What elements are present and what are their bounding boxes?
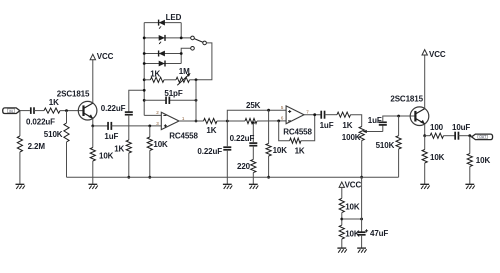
wire LED row2 (144, 37, 191, 39)
svg-text:220: 220 (237, 162, 251, 171)
switch contact A (191, 36, 195, 40)
wire (128, 153, 130, 177)
wire (20, 110, 30, 112)
wire right rail upper (180, 23, 182, 38)
wire feedback branch (129, 90, 144, 112)
svg-text:2.2M: 2.2M (28, 142, 46, 151)
potentiometer 25K (245, 118, 257, 123)
wire (444, 135, 456, 137)
capacitor 10uF (454, 132, 456, 140)
svg-text:1uF: 1uF (104, 132, 118, 141)
wire (459, 135, 472, 137)
wire (425, 135, 430, 137)
wire signal to pin3 (111, 125, 161, 127)
wire (217, 120, 245, 122)
switch contact B (191, 47, 195, 51)
node bus 1K (127, 176, 130, 179)
node op2 out (313, 113, 316, 116)
VCC (Q1) (90, 54, 95, 59)
node signal (148, 125, 151, 128)
wire (60, 110, 83, 112)
wire op2 out (304, 114, 321, 116)
svg-text:LED: LED (166, 13, 182, 22)
node rail dots (143, 37, 146, 40)
op-amp U1B RC4558 (286, 106, 304, 124)
wire (93, 125, 108, 127)
svg-text:10K: 10K (99, 152, 114, 161)
svg-text:1K: 1K (150, 69, 160, 78)
resistor 10K (divider top) (339, 198, 344, 212)
ground (2.2M) (16, 183, 25, 185)
wire wiper up (382, 125, 384, 131)
svg-text:10uF: 10uF (452, 123, 470, 132)
wire LED row4 (144, 63, 181, 65)
svg-text:VCC: VCC (97, 52, 114, 61)
svg-text:51pF: 51pF (164, 89, 182, 98)
wire (128, 115, 130, 140)
wire (351, 115, 362, 127)
wire (341, 187, 343, 198)
VCC (divider) (339, 182, 344, 187)
svg-text:10K: 10K (430, 153, 445, 162)
wire (257, 120, 286, 122)
resistor 510K (Q2 bias) (398, 116, 400, 136)
potentiometer 1M (176, 77, 190, 82)
potentiometer 100K (359, 127, 364, 141)
wire feedback rail (195, 80, 197, 121)
svg-text:RC4558: RC4558 (283, 127, 312, 136)
wire (341, 239, 343, 248)
diode LED2 (164, 35, 166, 41)
ground (emitter Q1) (88, 183, 97, 185)
resistor 510K (bias) (66, 111, 68, 123)
node wiper 10K (267, 109, 270, 112)
node bus 10K-2 (267, 176, 270, 179)
wire op2 feedback (279, 121, 290, 141)
input jack IN (3, 108, 20, 114)
svg-text:2SC1815: 2SC1815 (57, 89, 90, 98)
svg-text:0.22uF: 0.22uF (230, 134, 255, 143)
svg-text:1K: 1K (49, 98, 59, 107)
wire (252, 146, 254, 160)
resistor 1K (op1 out) (204, 118, 218, 123)
wire collector Q2 (424, 55, 426, 109)
ground (220) (249, 183, 258, 185)
wire pot bottom (361, 141, 363, 178)
capacitor 47uF (361, 219, 363, 232)
wire (383, 116, 416, 122)
wire (252, 173, 254, 185)
node op1 out (195, 120, 198, 123)
node A (226, 120, 229, 123)
node bus 10K (148, 176, 151, 179)
wire VREF bus (67, 176, 399, 178)
wire (361, 235, 363, 248)
wire (164, 79, 176, 81)
svg-text:10K: 10K (476, 156, 491, 165)
resistor 10K (bias op1) (149, 126, 151, 137)
capacitor 1uF (coupling) (107, 122, 109, 130)
svg-text:1M: 1M (179, 67, 190, 76)
svg-text:1K: 1K (342, 121, 352, 130)
resistor 1K (gain) (126, 140, 131, 153)
resistor 1K (op2 fb) (290, 138, 301, 143)
output jack OUT (472, 134, 493, 140)
wire switch to feedback (196, 43, 212, 80)
wire LED row3 (144, 53, 181, 55)
node drive tap (252, 122, 255, 125)
VCC (Q2) (422, 50, 427, 55)
resistor 100 (430, 133, 443, 138)
ground (emitter Q2) (420, 183, 429, 185)
wire (190, 79, 197, 81)
resistor 10K (divider bottom) (339, 225, 344, 239)
resistor 10K (emitter Q2) (424, 136, 426, 150)
svg-text:510K: 510K (376, 141, 395, 150)
resistor 10K (out) (469, 136, 471, 154)
svg-text:100K: 100K (342, 133, 361, 142)
resistor 1K (level) (337, 112, 351, 117)
wire left rail (143, 23, 145, 116)
svg-text:10K: 10K (273, 146, 288, 155)
svg-text:0.22uF: 0.22uF (101, 104, 126, 113)
svg-text:RC4558: RC4558 (169, 132, 198, 141)
svg-text:1uF: 1uF (368, 116, 382, 125)
svg-text:OUT: OUT (479, 135, 486, 139)
svg-text:47uF: 47uF (370, 229, 388, 238)
node 51pF right (195, 99, 198, 102)
capacitor 1uF (op2 out) (320, 111, 322, 119)
resistor 2.2M (19, 111, 21, 136)
node divider (340, 218, 343, 221)
svg-text:1K: 1K (114, 145, 124, 154)
ground (0.22uF) (223, 183, 232, 185)
wire emitter Q2 (424, 124, 426, 136)
wire (34, 110, 44, 112)
wire (341, 213, 343, 226)
resistor 10K (emitter Q1) (92, 126, 94, 148)
svg-text:1uF: 1uF (320, 121, 334, 130)
capacitor 0.22uF (node A) (226, 121, 228, 146)
capacitor 1uF (to Q2) (379, 121, 387, 123)
node pin6 (277, 120, 280, 123)
diode D3 (158, 51, 160, 57)
diode D4 (164, 61, 166, 67)
ground (out) (465, 183, 474, 185)
node emitter Q1 (91, 125, 94, 128)
wire pin2 row (144, 114, 161, 116)
switch lever (194, 39, 203, 43)
wire (325, 114, 337, 116)
svg-text:25K: 25K (246, 101, 261, 110)
svg-text:IN: IN (9, 109, 13, 113)
svg-text:510K: 510K (44, 130, 63, 139)
capacitor 0.022uF (30, 107, 32, 114)
ground (47uF) (357, 247, 366, 249)
node feedback top (195, 78, 198, 81)
wire emitter Q1 (92, 118, 94, 126)
wire LED row1 (144, 22, 181, 24)
ground (divider) (337, 247, 346, 249)
node bus pot (360, 176, 363, 179)
transistor Q2 2SC1815 (410, 107, 429, 126)
diode LED1 (158, 20, 160, 26)
svg-text:0.022uF: 0.022uF (26, 118, 55, 127)
resistor 1K (feedback) (144, 79, 150, 81)
svg-text:VCC: VCC (345, 180, 362, 189)
svg-text:0.22uF: 0.22uF (197, 147, 222, 156)
svg-text:VCC: VCC (429, 50, 446, 59)
wire (226, 150, 228, 185)
node emitter Q2 (423, 134, 426, 137)
svg-text:2SC1815: 2SC1815 (390, 94, 423, 103)
svg-text:10K: 10K (345, 202, 360, 211)
capacitor 51pF (165, 97, 167, 104)
wire op1 out (179, 120, 204, 122)
node Q2 base (397, 115, 400, 118)
transistor Q1 2SC1815 (78, 101, 97, 120)
svg-text:1K: 1K (295, 147, 305, 156)
wire right rail lower (181, 48, 191, 63)
node base Q1 (65, 109, 68, 112)
switch pole (203, 41, 207, 45)
wire VREF riser (361, 177, 363, 219)
svg-text:100: 100 (430, 123, 444, 132)
svg-text:1K: 1K (206, 126, 216, 135)
wire collector Q1 (92, 60, 94, 104)
wire wiper row (227, 110, 286, 121)
wire (301, 115, 315, 141)
capacitor 0.22uF (tap) (249, 142, 257, 144)
resistor 10K (pin5 bias) (268, 110, 270, 143)
svg-text:10K: 10K (153, 140, 168, 149)
resistor 220 (251, 159, 256, 172)
capacitor 0.22uF (gain) (125, 111, 133, 113)
node out (468, 134, 471, 137)
wire 51pF row (144, 99, 166, 101)
op-amp U1A RC4558 (161, 112, 179, 129)
resistor 1K (input) (44, 108, 60, 113)
